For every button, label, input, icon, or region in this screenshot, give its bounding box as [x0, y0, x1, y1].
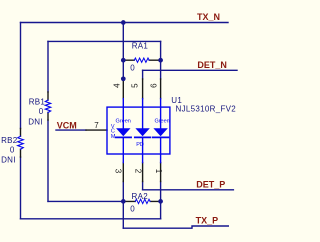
wire outer loop bottom horizontal	[21, 218, 161, 220]
pin 4 black lead	[122, 79, 124, 99]
pin 3 black lead	[122, 163, 124, 182]
wire inner loop left vertical (lower, below RB1)	[47, 120, 49, 201]
pin 7 black lead	[86, 129, 107, 131]
wire pin3 continuation down to TX_P run	[122, 201, 124, 228]
svg-text:RA2: RA2	[132, 192, 149, 201]
wire TX_N top horizontal	[21, 22, 229, 24]
junction RA2 left	[121, 199, 126, 204]
wire TX_P horizontal	[123, 226, 228, 228]
svg-text:TX_N: TX_N	[197, 12, 220, 22]
svg-text:3: 3	[113, 169, 122, 174]
wire outer loop left vertical (upper, above RB2)	[20, 23, 22, 129]
svg-text:0: 0	[130, 204, 135, 213]
diode D-left anode line	[122, 99, 124, 129]
svg-text:0: 0	[130, 63, 135, 72]
svg-text:DNI: DNI	[1, 156, 16, 165]
wire pin3 down to RA2 left node	[122, 182, 124, 202]
resistor RA2 leads	[123, 200, 160, 202]
wire from outer loop up to RA2 right node	[160, 201, 162, 218]
svg-text:0: 0	[10, 145, 15, 154]
wire DET_P horizontal	[143, 189, 234, 191]
wire pin6 from RA1 right node down	[160, 60, 162, 79]
junction RA2 right	[158, 199, 163, 204]
diode D-right cathode bar	[153, 136, 169, 138]
resistor RB2 leads	[20, 129, 22, 158]
resistor RB1 zigzag	[45, 100, 50, 112]
svg-text:DNI: DNI	[28, 117, 43, 126]
svg-text:5: 5	[130, 83, 139, 88]
resistor RA2 zigzag	[135, 199, 150, 203]
svg-text:Green: Green	[154, 118, 169, 124]
wire VCM to pin 7	[56, 129, 86, 131]
svg-text:RA1: RA1	[132, 41, 149, 50]
wire pin2 down to DET_P corner	[142, 182, 144, 190]
svg-text:NJL5310R_FV2: NJL5310R_FV2	[176, 105, 237, 114]
svg-text:6: 6	[149, 83, 158, 88]
diode PD-mid cathode line	[142, 137, 144, 162]
resistor RB1 leads	[47, 92, 49, 120]
wire pin1 down to RA2 right node	[160, 182, 162, 202]
diode PD-mid cathode bar	[135, 136, 151, 138]
svg-text:0: 0	[39, 107, 44, 116]
svg-text:VCM: VCM	[57, 120, 77, 130]
diode D-left cathode line	[122, 137, 124, 162]
svg-text:TX_P: TX_P	[196, 215, 219, 225]
op IC U1 box	[107, 107, 170, 154]
wire DET_N horizontal	[143, 69, 237, 71]
junction RA1 left	[121, 58, 126, 63]
svg-text:M: M	[111, 134, 116, 140]
wire outer loop left vertical (lower, below RB2)	[20, 157, 22, 219]
junction pin4 wire end	[121, 76, 126, 81]
wire inner loop bottom horizontal to RA2 left node	[48, 200, 123, 202]
pin 1 black lead	[160, 163, 162, 182]
diode PD-mid triangle	[135, 128, 149, 136]
diode D-right cathode line	[160, 137, 162, 162]
resistor RA1 zigzag	[134, 58, 149, 62]
diode D-right anode line	[160, 99, 162, 129]
svg-text:RB2: RB2	[1, 136, 18, 145]
svg-text:DET_P: DET_P	[196, 179, 225, 189]
pin 2 black lead	[142, 163, 144, 182]
pin 5 black lead	[142, 79, 144, 99]
svg-text:1: 1	[154, 169, 163, 174]
diode D-right triangle	[153, 128, 167, 136]
junction RA1 right	[158, 58, 163, 63]
wire DET_N corner down to pin 5	[142, 70, 144, 79]
diode D-left triangle	[116, 128, 130, 136]
svg-text:PD: PD	[136, 142, 144, 148]
junction TX_N/pin4	[121, 20, 126, 25]
resistor RA1 leads	[123, 59, 160, 61]
pin 6 black lead	[160, 79, 162, 99]
resistor RB2 zigzag	[18, 136, 24, 149]
svg-text:7: 7	[94, 121, 99, 130]
svg-text:4: 4	[112, 83, 121, 88]
diode D-left cathode bar	[116, 136, 132, 138]
svg-text:DET_N: DET_N	[197, 60, 227, 70]
wire inner loop left vertical (upper, above RB1)	[47, 41, 49, 92]
svg-text:RB1: RB1	[29, 98, 46, 107]
wire inner loop top horizontal	[48, 40, 161, 42]
diode PD-mid anode line	[142, 99, 144, 129]
svg-text:Green: Green	[116, 118, 131, 124]
wire pin4 column from TX_N junction down	[122, 23, 124, 79]
wire inner loop right drop to RA1 right node	[160, 41, 162, 60]
svg-text:2: 2	[134, 169, 143, 174]
